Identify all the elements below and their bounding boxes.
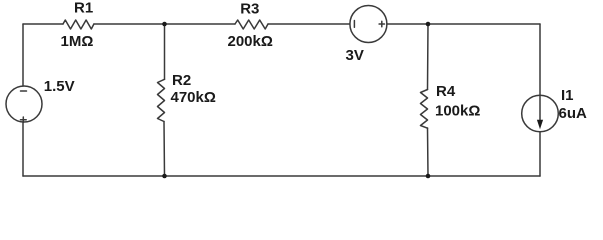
V1 plus sign bbox=[21, 119, 27, 121]
svg-text:6uA: 6uA bbox=[559, 105, 588, 122]
wire left vertical top to V1 bbox=[22, 24, 24, 86]
wire right vertical down to I1 bbox=[539, 24, 541, 95]
junction node D dot bbox=[426, 174, 431, 179]
wire node B down to R4 bbox=[427, 24, 430, 90]
svg-text:470kΩ: 470kΩ bbox=[171, 89, 216, 106]
wire top-left to R1 bbox=[23, 23, 63, 25]
svg-text:1.5V: 1.5V bbox=[44, 78, 75, 95]
voltage source V1 1.5V circle bbox=[6, 86, 42, 122]
wire V1 bottom to corner bbox=[22, 122, 24, 176]
wire node A to R3 bbox=[165, 23, 236, 25]
V2 minus sign bbox=[353, 21, 355, 28]
junction node B dot bbox=[426, 22, 431, 27]
wire node A down to R2 bbox=[164, 24, 166, 79]
I1 arrowhead bbox=[537, 120, 543, 129]
resistor R1 bbox=[63, 20, 94, 29]
svg-text:R2: R2 bbox=[172, 72, 191, 89]
resistor R2 bbox=[158, 79, 165, 121]
wire node B to top-right corner bbox=[428, 23, 540, 25]
svg-text:R3: R3 bbox=[240, 0, 259, 17]
svg-text:R1: R1 bbox=[74, 0, 93, 17]
bottom wire bbox=[23, 175, 540, 177]
svg-text:1MΩ: 1MΩ bbox=[61, 33, 94, 50]
voltage source V2 3V circle bbox=[350, 6, 387, 43]
svg-text:I1: I1 bbox=[561, 87, 574, 104]
wire R4 bottom to node D bbox=[427, 128, 430, 176]
wire R1 to node A bbox=[94, 23, 165, 25]
resistor R3 bbox=[235, 20, 268, 29]
svg-text:100kΩ: 100kΩ bbox=[435, 103, 480, 120]
wire V2 to node B bbox=[387, 23, 428, 25]
wire R2 bottom to node C bbox=[163, 122, 166, 177]
svg-text:R4: R4 bbox=[436, 83, 456, 100]
wire R3 to source V2 bbox=[268, 23, 350, 25]
current source I1 circle bbox=[522, 95, 559, 132]
V1 minus sign bbox=[21, 90, 27, 92]
I1 arrow shaft bbox=[539, 96, 541, 121]
svg-text:3V: 3V bbox=[346, 47, 364, 64]
wire I1 bottom to corner bbox=[539, 132, 541, 176]
V2 plus sign bbox=[379, 23, 384, 25]
resistor R4 bbox=[421, 90, 428, 129]
junction node A dot bbox=[162, 22, 167, 27]
svg-text:200kΩ: 200kΩ bbox=[228, 33, 273, 50]
junction node C dot bbox=[162, 174, 167, 179]
